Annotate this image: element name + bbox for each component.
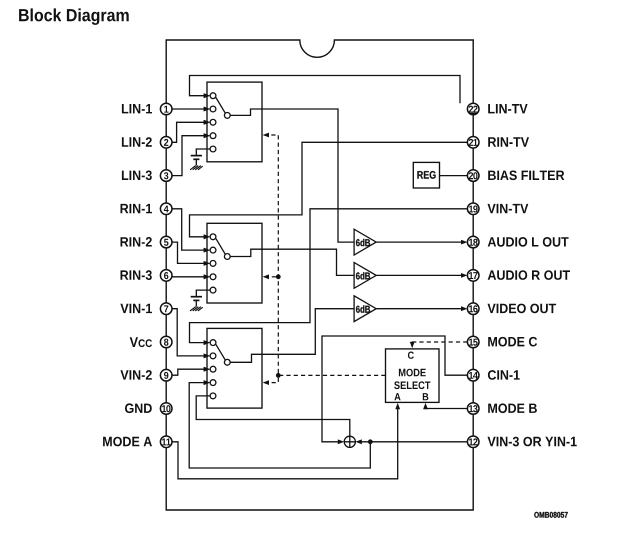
- pin 19 label VIN-TV: [488, 204, 529, 213]
- pin 15 label MODE C: [488, 337, 537, 347]
- pin 16 label VIDEO OUT: [488, 304, 557, 314]
- drawing number OMB08057: [534, 512, 567, 518]
- wire A3 output to pin 16: [376, 308, 462, 310]
- ground symbol under S2 capacitor: [190, 307, 203, 311]
- pin 17 label AUDIO R OUT: [488, 270, 570, 280]
- title Block Diagram: [19, 8, 129, 25]
- pin 15 number: [469, 339, 478, 346]
- wire pin 1 LIN-1 to S1 contact 2: [172, 108, 204, 110]
- pin 1 circle: [160, 103, 172, 115]
- wire pin 9 VIN-2 to S3 contact 3: [172, 369, 204, 375]
- wire pin 4 RIN-1 to S2 contact 2: [172, 209, 204, 250]
- pin 19 number: [469, 206, 478, 213]
- arrow into S3 contact 1: [204, 340, 210, 345]
- arrow into S1 contact 4: [204, 133, 210, 138]
- wire pin 19 VIN-TV to S3 contact 1: [190, 209, 468, 343]
- pin 18 label AUDIO L OUT: [488, 237, 569, 247]
- wire pin 14 CIN-1 to summer left input: [322, 336, 467, 442]
- S3 contact 3: [210, 366, 216, 372]
- pin 22 circle: [467, 103, 479, 115]
- 6dB amplifier A1: [354, 229, 376, 255]
- S1 contact 3: [210, 119, 216, 125]
- capacitor to ground on S1 contact 5: [196, 149, 210, 155]
- pin 1 label LIN-1: [122, 104, 152, 113]
- S2 wiper arm and pole: [216, 239, 225, 255]
- wire pin 6 RIN-3 to S2 contact 4: [172, 276, 204, 278]
- wire pin 13 MODE B to U1 input B: [426, 406, 468, 409]
- wire S3 pole output to amplifier A3 input: [230, 309, 353, 363]
- S1 contact 1: [210, 93, 216, 99]
- pin 7 circle: [160, 303, 172, 315]
- wire A1 output to pin 18: [376, 241, 462, 243]
- arrow into S2 contact 4: [204, 274, 210, 279]
- ground symbol under S1 capacitor: [190, 166, 203, 170]
- pin 2 label LIN-2: [122, 137, 152, 147]
- input selector switch block S2: [207, 223, 262, 303]
- arrow control into S1: [263, 133, 269, 138]
- arrow into S1 contact 1: [204, 93, 210, 98]
- pin 14 circle: [467, 369, 479, 381]
- pin 17 number: [469, 272, 477, 279]
- 6dB amplifier A2: [354, 263, 376, 289]
- pin 21 circle: [467, 137, 479, 149]
- S3 wiper arm and pole: [216, 344, 225, 360]
- S3 contact 5: [210, 393, 216, 399]
- pin 3 circle: [160, 170, 172, 182]
- S3 contact 1: [210, 340, 216, 346]
- pin 18 circle: [467, 236, 479, 248]
- wire pin 12 VIN-3 OR YIN-1 to summer right input: [361, 441, 467, 443]
- wire pin 21 RIN-TV to S2 contact 1: [190, 142, 468, 237]
- wire pin 12 branch to S3 contact 4: [189, 383, 370, 468]
- pin 22 number underline: [469, 112, 478, 114]
- pin 13 number: [469, 405, 478, 412]
- pin 5 number: [164, 239, 169, 246]
- pin 12 label VIN-3 OR YIN-1: [488, 437, 577, 447]
- pin 3 label LIN-3: [122, 171, 152, 181]
- S3 contact 4: [210, 380, 216, 386]
- pin 10 number: [162, 405, 170, 412]
- S1 contact 5: [210, 146, 216, 152]
- arrow into S2 contact 3: [204, 261, 210, 266]
- pin 13 label MODE B: [488, 403, 537, 413]
- arrow into S3 contact 4: [204, 380, 210, 385]
- pin 20 number: [469, 172, 478, 179]
- MODE SELECT logic block U1: [386, 349, 440, 403]
- junction dot on pin 12 wire: [368, 439, 373, 444]
- arrow into S3 contact 3: [204, 367, 210, 372]
- pin 6 circle: [160, 270, 172, 282]
- pin 6 label RIN-3: [121, 270, 152, 280]
- S2 contact 1: [210, 234, 216, 240]
- pin 6 number: [164, 272, 168, 279]
- capacitor to ground on S2 contact 5: [196, 290, 210, 296]
- arrow into S2 contact 1: [204, 234, 210, 239]
- S2 contact 3: [210, 261, 216, 267]
- pin 7 label VIN-1: [120, 304, 152, 313]
- pin 1 number: [164, 106, 168, 113]
- pin 15 circle: [467, 336, 479, 348]
- summing junction (Y+C adder): [344, 436, 355, 447]
- pin 22 number: [469, 106, 478, 113]
- pin 4 number: [164, 206, 169, 213]
- S3 contact 2: [210, 353, 216, 359]
- S1 contact 4: [210, 133, 216, 139]
- wire pin 11 MODE A to U1 input A: [172, 406, 398, 479]
- wire S1 pole output to amplifier A1 input: [230, 109, 353, 242]
- S2 contact 4: [210, 274, 216, 280]
- IC body outline: [166, 40, 473, 510]
- pin 5 label RIN-2: [121, 237, 152, 247]
- pin 10 circle: [160, 403, 172, 415]
- pin 9 number: [164, 372, 168, 379]
- pin 5 circle: [160, 236, 172, 248]
- arrow into S3 contact 2: [204, 354, 210, 359]
- junction dot on control line at U1 branch: [276, 373, 281, 378]
- pin 12 number: [469, 438, 477, 445]
- pin 12 circle: [467, 436, 479, 448]
- pin 22 label LIN-TV: [488, 104, 527, 113]
- S1 wiper arm and pole: [216, 98, 225, 114]
- pin 17 circle: [467, 270, 479, 282]
- pin 4 circle: [160, 203, 172, 215]
- pin 10 label GND: [125, 403, 152, 413]
- pin 8 number: [164, 339, 168, 346]
- control branch into S2: [270, 276, 277, 278]
- pin 16 circle: [467, 303, 479, 315]
- dashed control line from U1 to switches: [270, 135, 386, 375]
- pin 9 label VIN-2: [120, 370, 151, 380]
- pin 11 number: [162, 439, 171, 446]
- pin 14 label CIN-1: [488, 370, 520, 380]
- pin 8 label VCC: [130, 337, 138, 347]
- pin 13 circle: [467, 403, 479, 415]
- pin 16 number: [469, 305, 478, 312]
- pin 9 circle: [160, 369, 172, 381]
- wire pin 7 VIN-1 to S3 contact 2: [172, 309, 204, 356]
- pin 21 number: [469, 139, 478, 146]
- pin 11 label MODE A: [103, 437, 152, 447]
- pin 8 circle: [160, 336, 172, 348]
- pin 4 label RIN-1: [121, 204, 153, 213]
- arrow into S1 contact 2: [204, 107, 210, 112]
- pin 2 circle: [160, 137, 172, 149]
- wire pin 22 LIN-TV to S1 contact 1: [190, 76, 461, 104]
- pin 11 circle: [160, 436, 172, 448]
- input selector switch block S3: [207, 328, 262, 408]
- wire summer output to S3 contact 5: [196, 396, 350, 436]
- S1 contact 2: [210, 106, 216, 112]
- dashed wire pin 15 MODE C to U1 input C: [412, 342, 467, 343]
- pin 7 number: [164, 305, 168, 312]
- wire A2 output to pin 17: [376, 274, 462, 276]
- wire S2 pole output to amplifier A2 input: [230, 249, 353, 275]
- S2 contact 2: [210, 247, 216, 253]
- voltage regulator REG block: [413, 162, 439, 188]
- wire REG to pin 20 BIAS FILTER: [440, 175, 468, 177]
- pin 20 circle: [467, 170, 479, 182]
- wire pin 2 LIN-2 to S1 contact 3: [172, 122, 204, 142]
- pin 18 number: [469, 239, 478, 246]
- arrow into S2 contact 2: [204, 248, 210, 253]
- pin 21 label RIN-TV: [488, 137, 529, 146]
- S2 contact 5: [210, 287, 216, 293]
- wire pin 5 RIN-2 to S2 contact 3: [172, 242, 204, 263]
- pin 20 label BIAS FILTER: [488, 171, 564, 181]
- arrow into S1 contact 3: [204, 120, 210, 125]
- wire pin 3 LIN-3 to S1 contact 4: [172, 136, 204, 176]
- pin 3 number: [164, 172, 169, 179]
- junction dot on control line at S2: [276, 274, 281, 279]
- control branch into S3: [270, 378, 279, 383]
- pin 19 circle: [467, 203, 479, 215]
- pin 2 number: [164, 139, 168, 146]
- input selector switch block S1: [207, 82, 262, 162]
- 6dB amplifier A3: [354, 296, 376, 322]
- pin 14 number: [469, 372, 478, 379]
